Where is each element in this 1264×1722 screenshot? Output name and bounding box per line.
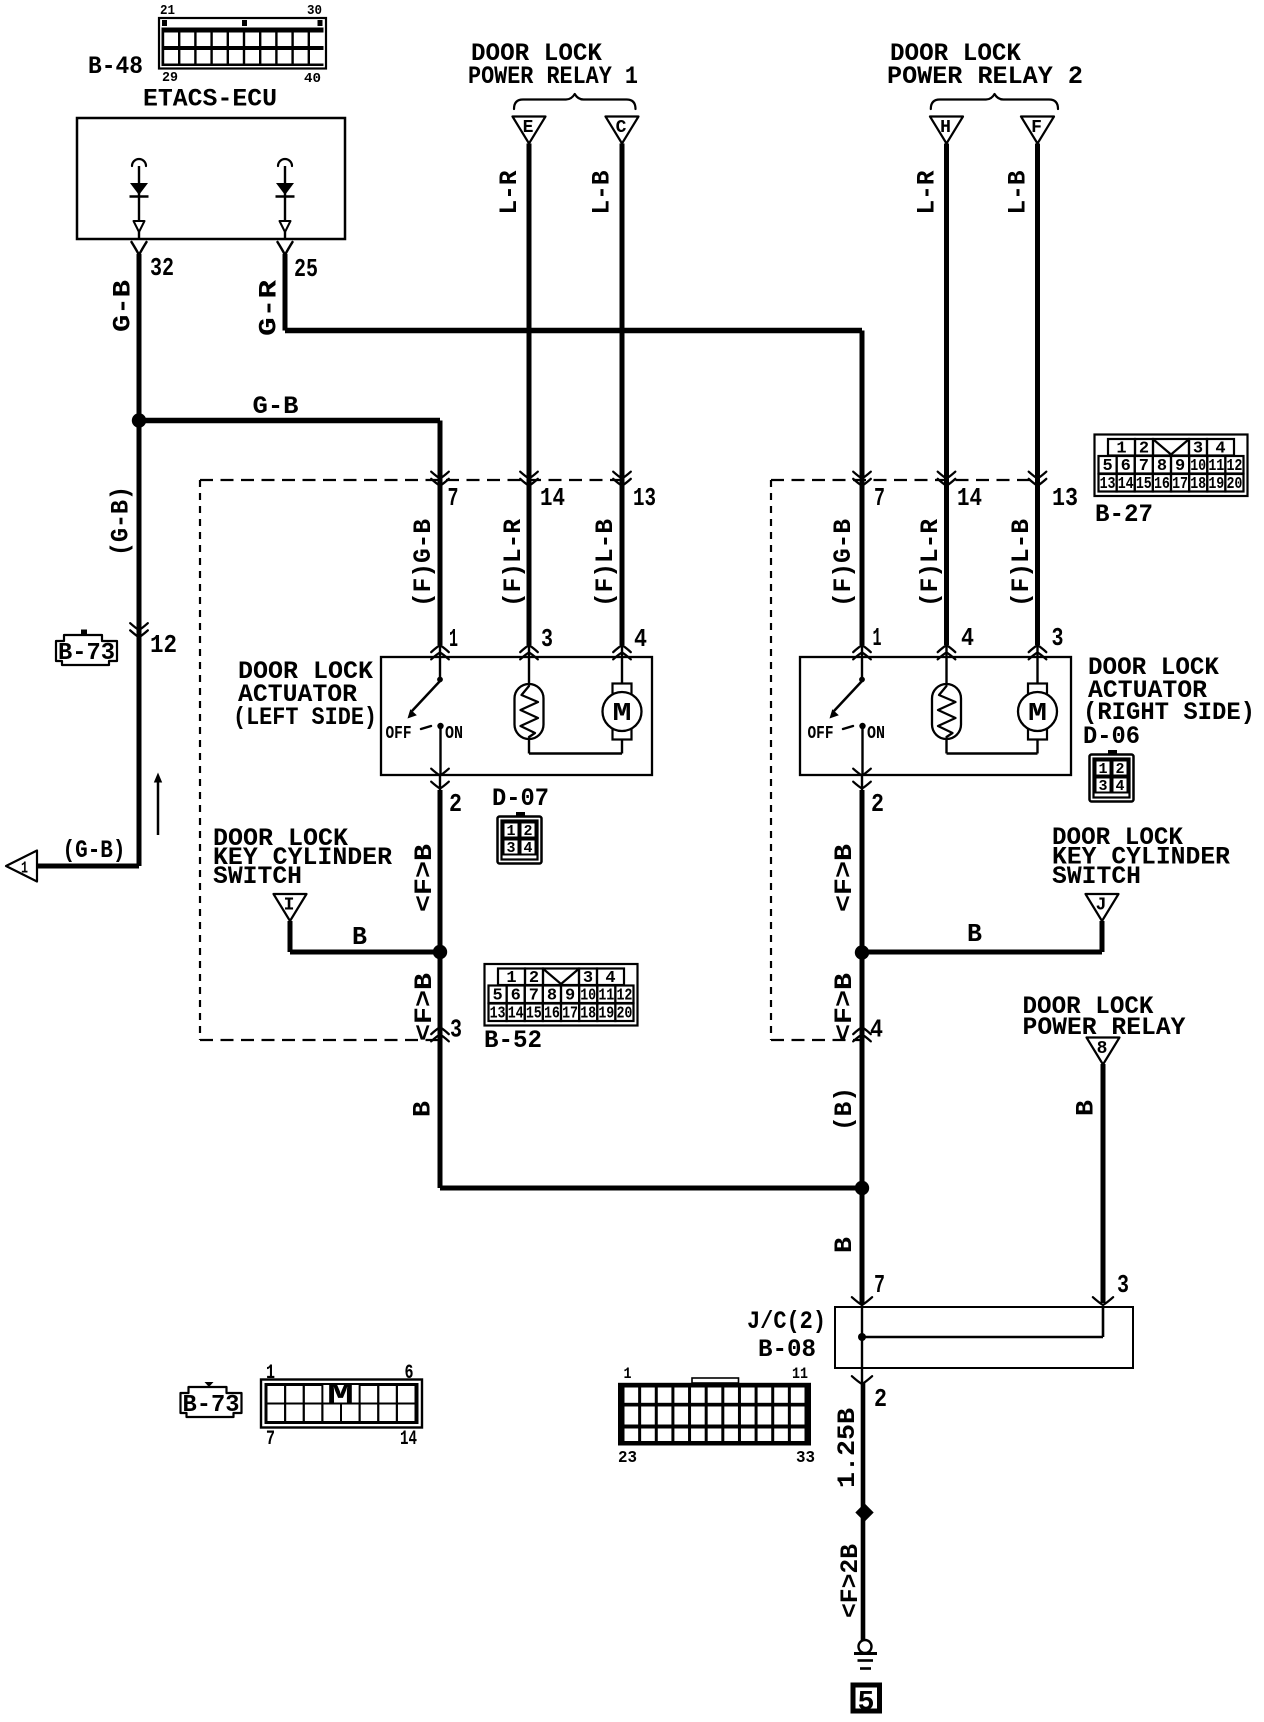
svg-text:14: 14 — [957, 483, 982, 513]
svg-text:C: C — [616, 118, 627, 138]
svg-text:30: 30 — [307, 3, 322, 19]
svg-text:21: 21 — [160, 3, 175, 19]
svg-text:ON: ON — [867, 724, 885, 744]
svg-text:POWER RELAY 1: POWER RELAY 1 — [468, 62, 638, 91]
svg-text:1: 1 — [21, 860, 28, 879]
svg-text:B: B — [352, 922, 367, 952]
svg-text:12: 12 — [150, 630, 177, 660]
svg-text:3: 3 — [1117, 1270, 1129, 1300]
svg-text:1: 1 — [624, 1365, 632, 1383]
svg-text:1: 1 — [873, 623, 882, 653]
svg-text:B-73: B-73 — [183, 1392, 240, 1419]
svg-text:2: 2 — [874, 1384, 887, 1414]
svg-text:(G-B): (G-B) — [63, 836, 126, 865]
svg-text:<F>B: <F>B — [830, 844, 859, 912]
svg-text:14: 14 — [1118, 475, 1134, 494]
svg-text:ETACS-ECU: ETACS-ECU — [143, 85, 277, 114]
svg-text:2: 2 — [523, 823, 532, 840]
svg-text:B-73: B-73 — [58, 640, 115, 667]
svg-text:15: 15 — [526, 1005, 542, 1024]
svg-text:(B): (B) — [830, 1087, 859, 1131]
svg-text:G-B: G-B — [109, 280, 138, 332]
svg-text:7: 7 — [874, 1270, 885, 1300]
svg-text:POWER RELAY 2: POWER RELAY 2 — [887, 62, 1083, 91]
svg-text:20: 20 — [1226, 475, 1242, 494]
svg-text:23: 23 — [618, 1449, 637, 1468]
svg-text:3: 3 — [541, 624, 553, 654]
svg-text:7: 7 — [448, 483, 459, 513]
svg-text:15: 15 — [1136, 475, 1152, 494]
svg-text:B: B — [1072, 1100, 1101, 1116]
svg-text:4: 4 — [870, 1015, 883, 1045]
svg-text:17: 17 — [1172, 475, 1188, 494]
svg-text:D-07: D-07 — [492, 784, 549, 813]
svg-text:25: 25 — [294, 254, 318, 284]
svg-text:4: 4 — [634, 624, 647, 654]
svg-text:OFF: OFF — [808, 724, 834, 744]
svg-text:J/C(2): J/C(2) — [747, 1307, 826, 1336]
svg-text:M: M — [613, 698, 632, 728]
svg-text:6: 6 — [405, 1362, 414, 1385]
svg-text:40: 40 — [304, 71, 321, 87]
svg-text:18: 18 — [1190, 475, 1206, 494]
svg-text:33: 33 — [796, 1449, 815, 1468]
svg-text:L-R: L-R — [495, 171, 524, 215]
svg-text:1: 1 — [266, 1362, 275, 1385]
svg-text:7: 7 — [874, 483, 885, 513]
svg-text:3: 3 — [1052, 623, 1064, 653]
svg-text:J: J — [1096, 896, 1107, 916]
svg-text:4: 4 — [961, 623, 974, 653]
svg-text:3: 3 — [1098, 778, 1107, 795]
svg-text:13: 13 — [633, 483, 656, 513]
svg-text:7: 7 — [266, 1428, 275, 1451]
svg-text:M: M — [1028, 698, 1047, 728]
svg-text:11: 11 — [792, 1365, 808, 1383]
svg-text:(F)L-B: (F)L-B — [1007, 519, 1036, 607]
svg-text:19: 19 — [598, 1005, 614, 1024]
svg-text:14: 14 — [508, 1005, 524, 1024]
svg-text:B-08: B-08 — [758, 1335, 816, 1364]
svg-text:(F)L-R: (F)L-R — [499, 519, 528, 607]
svg-text:L-R: L-R — [913, 171, 942, 215]
svg-text:4: 4 — [1115, 778, 1124, 795]
svg-text:D-06: D-06 — [1083, 722, 1140, 751]
svg-text:(F)L-R: (F)L-R — [916, 519, 945, 607]
svg-text:17: 17 — [562, 1005, 578, 1024]
svg-text:1: 1 — [449, 624, 458, 654]
svg-text:3: 3 — [506, 840, 515, 857]
svg-text:3: 3 — [450, 1015, 462, 1045]
svg-text:13: 13 — [490, 1005, 506, 1024]
svg-text:19: 19 — [1208, 475, 1224, 494]
svg-text:2: 2 — [449, 789, 462, 819]
svg-text:(G-B): (G-B) — [107, 486, 136, 556]
svg-text:5: 5 — [858, 1688, 875, 1719]
svg-text:2: 2 — [1115, 761, 1124, 778]
svg-text:14: 14 — [540, 483, 565, 513]
svg-text:(F)G-B: (F)G-B — [829, 519, 858, 607]
svg-text:<F>B: <F>B — [830, 973, 859, 1041]
svg-text:1: 1 — [1098, 761, 1107, 778]
svg-text:4: 4 — [523, 840, 532, 857]
svg-text:(F)G-B: (F)G-B — [409, 519, 438, 607]
svg-text:13: 13 — [1100, 475, 1116, 494]
svg-text:SWITCH: SWITCH — [213, 862, 302, 891]
svg-text:I: I — [284, 896, 295, 916]
svg-text:<F>2B: <F>2B — [836, 1544, 865, 1618]
svg-text:(F)L-B: (F)L-B — [591, 519, 620, 607]
svg-text:ON: ON — [445, 724, 463, 744]
svg-text:B: B — [830, 1237, 859, 1253]
svg-text:<F>B: <F>B — [410, 844, 439, 912]
svg-text:14: 14 — [400, 1428, 417, 1451]
svg-text:13: 13 — [1052, 483, 1078, 513]
svg-text:SWITCH: SWITCH — [1052, 862, 1141, 891]
svg-text:2: 2 — [871, 789, 884, 819]
svg-text:H: H — [940, 118, 951, 138]
svg-text:B: B — [409, 1101, 438, 1117]
svg-text:1: 1 — [506, 823, 515, 840]
svg-text:16: 16 — [544, 1005, 560, 1024]
svg-text:8: 8 — [1097, 1039, 1108, 1059]
svg-text:B-27: B-27 — [1095, 500, 1153, 529]
svg-text:E: E — [523, 118, 534, 138]
svg-text:16: 16 — [1154, 475, 1170, 494]
svg-text:F: F — [1031, 118, 1042, 138]
svg-text:L-B: L-B — [1004, 171, 1033, 215]
svg-text:32: 32 — [150, 253, 174, 283]
svg-text:B-52: B-52 — [484, 1026, 542, 1055]
svg-text:G-B: G-B — [253, 392, 299, 421]
svg-text:M: M — [327, 1379, 354, 1412]
svg-text:B: B — [967, 919, 982, 949]
svg-text:OFF: OFF — [386, 724, 412, 744]
svg-text:L-B: L-B — [588, 171, 617, 215]
svg-text:1.25B: 1.25B — [833, 1408, 862, 1488]
svg-text:(LEFT SIDE): (LEFT SIDE) — [233, 703, 377, 732]
svg-text:G-R: G-R — [255, 280, 284, 336]
svg-text:B-48: B-48 — [88, 52, 143, 81]
svg-text:20: 20 — [616, 1005, 632, 1024]
svg-text:18: 18 — [580, 1005, 596, 1024]
